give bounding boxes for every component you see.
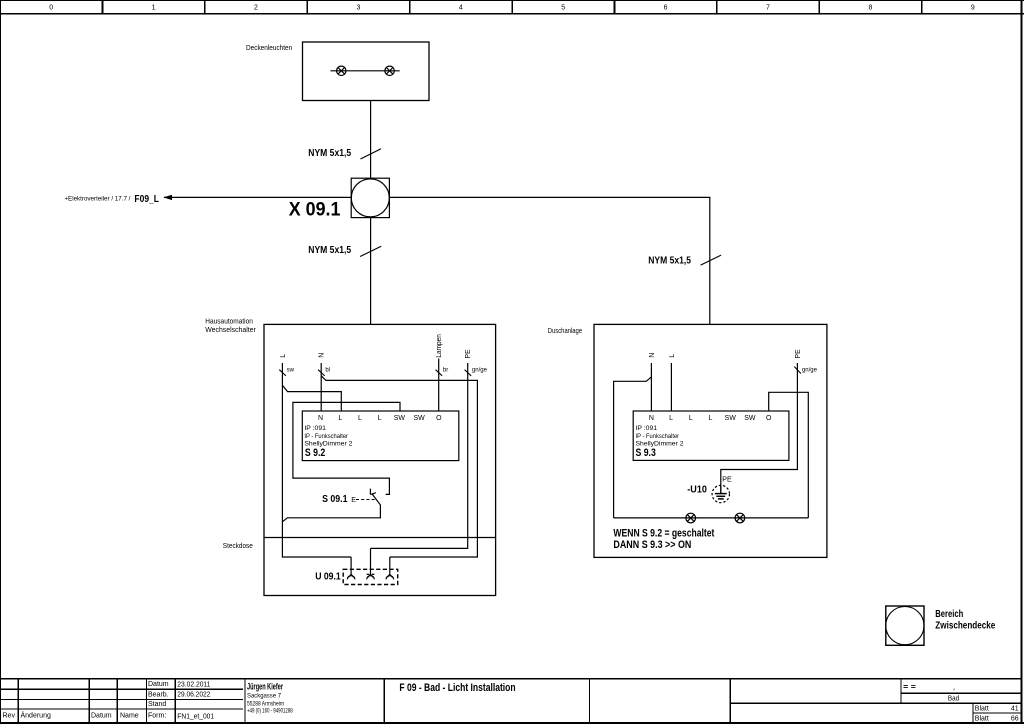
svg-text:SW: SW [413,415,425,422]
title block lines [0,678,1021,723]
title block values [177,679,214,720]
svg-text:S 9.2: S 9.2 [305,447,325,459]
wire L branch to Shelly L [282,385,341,411]
wire N branch to socket [321,376,477,557]
wire L (sw) vertical [282,363,351,557]
svg-text:8: 8 [868,5,872,12]
feeder wire from distribution [164,196,351,198]
wire SW to switch [293,402,400,494]
svg-text:Name: Name [120,712,139,719]
box Hausautomation [264,324,496,595]
socket outlet 1 [347,557,355,579]
sheet numbers [975,706,1019,723]
svg-text:gn/ge: gn/ge [472,368,488,374]
svg-text:-U10: -U10 [687,484,707,496]
svg-text:PE: PE [722,477,732,484]
svg-text:N: N [319,353,326,358]
switch fixed contact [370,489,373,495]
svg-text:O: O [436,415,442,422]
svg-text:X 09.1: X 09.1 [289,200,341,221]
ruler numbers 0-9 [49,5,975,12]
svg-text:DANN S 9.3 >> ON: DANN S 9.3 >> ON [613,539,691,551]
svg-text:WENN S 9.2 = geschaltet: WENN S 9.2 = geschaltet [613,528,714,540]
svg-text:F 09 - Bad - Licht Installatio: F 09 - Bad - Licht Installation [399,682,515,694]
title block left labels [3,681,169,719]
svg-text:Datum: Datum [91,712,112,719]
svg-text:Datum: Datum [148,681,169,688]
wire PE vertical [371,363,468,548]
svg-text:6: 6 [664,5,668,12]
svg-text:23.02.2011: 23.02.2011 [177,679,210,688]
svg-text:N: N [649,415,654,422]
svg-text:Zwischendecke: Zwischendecke [935,619,995,631]
svg-text:SW: SW [394,415,406,422]
switch arm [282,494,380,522]
feeder arrow head [163,195,172,200]
terminal labels S9.3 [649,415,772,422]
switch actuation dashed line [356,499,377,501]
svg-text:66: 66 [1011,715,1019,722]
wire lamps to junction [370,101,372,179]
Steckdose separator [264,537,496,539]
svg-text:L: L [378,415,382,422]
svg-text:5: 5 [561,5,565,12]
svg-text:IP :091: IP :091 [304,425,326,432]
svg-text:N: N [649,353,656,358]
cable slash (top) [361,149,382,159]
svg-text:S 09.1: S 09.1 [322,493,348,505]
svg-text:bl: bl [325,368,330,374]
svg-text:Bearb.: Bearb. [148,691,169,698]
svg-text:L: L [338,415,342,422]
svg-text:F09_L: F09_L [134,193,159,205]
svg-text:SW: SW [725,415,737,422]
svg-text:L: L [669,354,676,358]
terminal labels S9.2 [318,415,442,422]
socket outlet 2 (PE) [367,548,375,579]
conductor tick br [436,370,443,376]
svg-text:Änderung: Änderung [21,711,51,719]
cable slash (right) [701,255,722,265]
cable slash (middle) [360,246,381,256]
wire N right [650,363,652,411]
svg-text:4: 4 [459,5,463,12]
svg-text:IP - Funkschalter: IP - Funkschalter [304,433,348,440]
svg-text:9: 9 [971,5,975,12]
wire O to lamps [769,392,809,518]
earth electrode U10 [712,485,729,502]
svg-text:Sackgasse 7: Sackgasse 7 [247,694,282,700]
lamp E3 [686,513,696,523]
svg-text:Lampen: Lampen [436,334,443,357]
conductor tick gn/ge right [794,367,801,374]
svg-text:U 09.1: U 09.1 [315,570,341,582]
svg-text:L: L [709,415,713,422]
svg-text:Bad: Bad [948,696,959,703]
svg-text:+49 (0) 160 - 94901288: +49 (0) 160 - 94901288 [247,709,293,715]
socket group dashed box [343,569,398,584]
svg-text:PE: PE [465,349,472,359]
svg-text:O: O [766,415,772,422]
wire L right [670,363,672,411]
svg-text:7: 7 [766,5,770,12]
svg-text:SW: SW [744,415,756,422]
svg-text:Form:: Form: [148,712,166,719]
svg-text:S 9.3: S 9.3 [636,447,656,459]
svg-text:L: L [358,415,362,422]
wire junction to right (Duschanlage) [389,197,709,324]
switch arm barb [372,493,376,494]
svg-text:29.06.2022: 29.06.2022 [177,689,210,698]
lamp E1 [337,66,346,75]
ruler column dividers [102,0,923,14]
svg-text:L: L [689,415,693,422]
svg-text:Stand: Stand [148,701,166,708]
svg-text:,: , [953,683,955,692]
svg-text:E: E [351,497,356,504]
svg-text:0: 0 [49,5,53,12]
wire Lampen to O [438,359,440,412]
socket outlet 3 [386,557,394,579]
Shelly dimmer S 9.2 box [302,411,459,461]
svg-text:PE: PE [795,349,802,359]
svg-text:Bereich: Bereich [935,608,963,620]
wire N vertical [320,363,322,411]
svg-text:+Elektroverteiler / 17.7 /: +Elektroverteiler / 17.7 / [64,196,130,202]
svg-text:N: N [318,415,323,422]
conductor tick gn/ge [465,370,472,376]
svg-text:55288 Armsheim: 55288 Armsheim [247,701,284,707]
lamp E4 [735,513,745,523]
legend Bereich Zwischendecke symbol [886,606,924,645]
svg-text:gn/ge: gn/ge [802,368,818,374]
Deckenleuchten box [303,42,430,101]
svg-text:NYM 5x1,5: NYM 5x1,5 [308,147,351,159]
svg-text:Hausautomation: Hausautomation [205,319,253,326]
lamp wire bottom [614,517,809,519]
conductor tick bl [318,370,325,376]
svg-text:Steckdose: Steckdose [223,543,253,550]
svg-text:3: 3 [356,5,360,12]
svg-text:L: L [280,354,287,358]
svg-text:1: 1 [152,5,156,12]
Shelly dimmer S 9.3 box [633,411,789,460]
svg-text:= =: = = [903,683,916,692]
svg-text:2: 2 [254,5,258,12]
wire PE right [721,363,798,485]
svg-text:Blatt: Blatt [975,715,989,722]
svg-text:Jürgen Kiefer: Jürgen Kiefer [247,681,283,691]
svg-text:sw: sw [287,368,295,374]
svg-text:Blatt: Blatt [975,706,989,713]
lamp E2 [385,66,394,75]
lamp wire inside box [331,70,400,72]
svg-text:L: L [669,415,673,422]
conductor tick sw [279,370,286,376]
svg-text:br: br [443,368,448,374]
box Duschanlage [594,324,827,557]
wire junction down to left box [370,218,372,325]
junction box X 09.1 [351,178,389,217]
svg-text:Deckenleuchten: Deckenleuchten [246,45,292,52]
svg-text:Duschanlage: Duschanlage [548,328,582,335]
svg-text:NYM 5x1,5: NYM 5x1,5 [648,255,691,267]
svg-text:41: 41 [1011,706,1019,713]
svg-text:FN1_et_001: FN1_et_001 [177,712,214,721]
svg-text:IP :091: IP :091 [636,425,658,432]
svg-text:Rev: Rev [3,712,16,719]
svg-text:IP - Funkschalter: IP - Funkschalter [636,433,680,440]
svg-text:Wechselschalter: Wechselschalter [205,327,256,334]
wire N branch to lamps [614,377,652,518]
svg-text:NYM 5x1,5: NYM 5x1,5 [308,244,351,256]
